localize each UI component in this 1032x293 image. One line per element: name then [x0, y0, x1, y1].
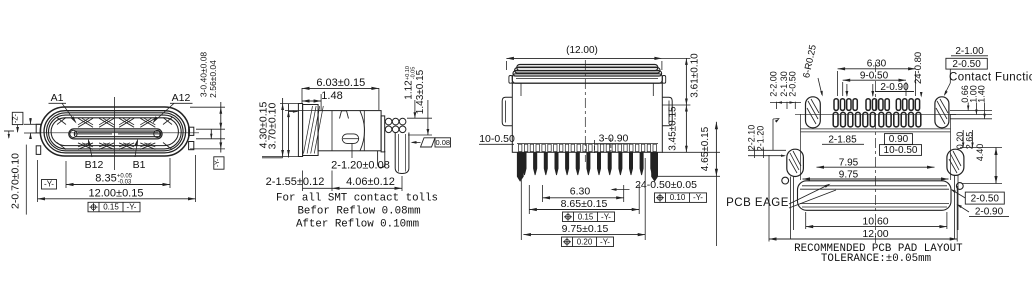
svg-text:3-0.90: 3-0.90	[599, 133, 629, 145]
view 3 pin comb band	[517, 143, 658, 145]
svg-text:8.35: 8.35	[95, 173, 116, 185]
view 3 left ext lines	[520, 158, 522, 240]
view 3 pins	[523, 152, 526, 175]
svg-text:-Y-: -Y-	[693, 193, 703, 202]
svg-text:24-0.80: 24-0.80	[913, 52, 924, 84]
svg-text:-Y-: -Y-	[600, 237, 610, 246]
svg-text:10-0.50: 10-0.50	[479, 133, 515, 145]
view 3 body	[512, 83, 662, 152]
flatness flag 0.08	[421, 138, 436, 147]
svg-text:0.15: 0.15	[103, 203, 119, 212]
view 4 small hole right	[956, 183, 963, 190]
svg-text:12.00±0.15: 12.00±0.15	[89, 187, 144, 199]
svg-text:3.45±0.15: 3.45±0.15	[667, 106, 678, 151]
svg-text:2-1.55±0.12: 2-1.55±0.12	[266, 176, 325, 188]
svg-text:24-0.50±0.05: 24-0.50±0.05	[635, 179, 697, 191]
view 2 latch detail	[340, 111, 349, 119]
view 3 dim 12 line	[506, 57, 662, 59]
leader 2-0.50 top	[949, 69, 951, 83]
view 1: USB-C receptacle front view - vertical centerline	[114, 97, 116, 170]
view 4 mid-right oval pad	[947, 149, 964, 175]
view 4 top-left big pad	[806, 97, 821, 128]
boxed 2-0.50 bottom	[965, 192, 1004, 204]
view 4 PCB edge shield bar	[798, 181, 952, 211]
view 2 main body	[318, 111, 381, 151]
view 4 mid-left oval pad	[787, 149, 804, 176]
svg-text:4.40: 4.40	[975, 144, 985, 162]
svg-text:Befor Reflow 0.08mm: Befor Reflow 0.08mm	[297, 205, 420, 217]
svg-text:2-1.20: 2-1.20	[756, 126, 766, 152]
svg-text:2-0.50: 2-0.50	[787, 71, 797, 97]
fcf 0.20 v3	[562, 237, 614, 247]
dim 4.06 line	[302, 171, 304, 192]
svg-text:4.06±0.12: 4.06±0.12	[346, 176, 395, 188]
view 4 bottom pad row	[833, 112, 838, 127]
view4 right mid hardware	[960, 147, 1002, 149]
view 3 right dims hardware	[662, 57, 690, 59]
small datum box right	[214, 157, 224, 169]
svg-text:1.12: 1.12	[404, 80, 415, 100]
dim 1.48 line	[302, 100, 321, 102]
svg-text:-Z-: -Z-	[13, 113, 20, 123]
svg-text:B12: B12	[85, 159, 104, 171]
dim 10.60 line	[806, 226, 947, 228]
view 3 right shell leg	[652, 152, 658, 181]
view 2 SMT pin circles	[385, 118, 392, 125]
view 4 phantom outline	[795, 113, 956, 115]
dim 12.00 v4 line	[769, 238, 957, 240]
view 2 small leg	[377, 151, 379, 164]
view 3 left shell leg	[517, 152, 523, 181]
svg-text:A1: A1	[51, 92, 64, 104]
svg-text:For all SMT contact tolls: For all SMT contact tolls	[276, 192, 438, 204]
svg-text:0.10: 0.10	[670, 193, 686, 202]
svg-text:0.08: 0.08	[435, 138, 450, 147]
svg-text:1.40: 1.40	[977, 85, 987, 103]
dim 6.03 ext lines	[301, 88, 303, 103]
dim 7.95 line	[817, 166, 935, 168]
boxed 0.90	[885, 134, 913, 145]
svg-text:2-2.00: 2-2.00	[769, 71, 779, 97]
svg-text:2.56±0.04: 2.56±0.04	[208, 60, 218, 98]
leader 24-0.50	[612, 189, 630, 191]
svg-text:10-0.50: 10-0.50	[884, 145, 918, 156]
view 2 flange with hatch	[303, 105, 319, 156]
datum -Z- flag top left	[12, 112, 23, 124]
view 1 tongue left end cap	[70, 130, 77, 137]
view 2 body inner vline	[331, 111, 333, 151]
view 1 tongue right end cap	[154, 130, 161, 137]
dim 2-0.90 arrows	[846, 84, 848, 96]
view 1 left mounting lug	[36, 124, 41, 133]
view1 right dim line	[220, 102, 222, 153]
fcf 0.10 v3	[655, 193, 707, 203]
view 2: side view front lip	[298, 104, 302, 157]
svg-text:4.65±0.15: 4.65±0.15	[700, 126, 711, 171]
view 1 shell third line	[47, 113, 184, 151]
svg-text:6.30: 6.30	[570, 186, 591, 198]
view 1 shell inner line	[44, 111, 186, 153]
dim 6.30 v3 line	[543, 197, 624, 199]
view 2 contact bump	[342, 134, 359, 144]
view 2 back curve	[360, 111, 365, 151]
dim 12.00 extension lines	[37, 160, 39, 202]
svg-text:Contact Function: Contact Function	[949, 72, 1032, 84]
view 1 right mounting lug	[189, 127, 194, 135]
view 4 small hole left	[782, 177, 789, 184]
svg-text:6.30: 6.30	[867, 59, 887, 70]
svg-text:TOLERANCE:±0.05mm: TOLERANCE:±0.05mm	[821, 253, 931, 265]
view 2 solder leg	[395, 133, 409, 174]
svg-text:0.90: 0.90	[889, 134, 909, 145]
dim 6.30 v4 line	[838, 68, 916, 70]
dim 9.75 v4 line	[803, 178, 949, 180]
svg-text:-Y-: -Y-	[214, 159, 221, 167]
datum -Y- box left	[42, 180, 57, 190]
view4 right top hardware	[950, 110, 992, 112]
svg-text:PCB EAGE: PCB EAGE	[726, 197, 789, 209]
view 1 cavity hatching	[78, 118, 93, 127]
boxed 10-0.50	[880, 145, 922, 156]
svg-text:After Reflow 0.10mm: After Reflow 0.10mm	[296, 218, 419, 230]
dim 9-0.50 line	[843, 79, 906, 81]
fcf 0.15 v3	[563, 212, 615, 222]
svg-text:-0.03: -0.03	[118, 180, 132, 186]
view 3 right tab	[662, 97, 672, 126]
svg-text:0.20: 0.20	[577, 237, 593, 246]
svg-text:-Y-: -Y-	[127, 203, 137, 212]
view 1 horizontal centerline	[30, 132, 199, 134]
view 3 right ext lines	[623, 185, 625, 202]
view 4 top pad row	[834, 99, 838, 111]
svg-text:3.61±0.10: 3.61±0.10	[689, 53, 700, 98]
view2 right dim hardware	[407, 117, 432, 119]
svg-text:2-0.50: 2-0.50	[952, 59, 981, 70]
leaders bottom right	[952, 190, 965, 198]
view 1 tongue contact bar	[74, 131, 160, 137]
view 1 cavity outer line	[49, 115, 182, 149]
view1 right ext lines	[190, 106, 225, 108]
view 1 cavity opening	[51, 118, 178, 146]
view 1 outer shell stadium	[40, 107, 189, 156]
svg-text:0.15: 0.15	[578, 212, 594, 221]
svg-text:10,60: 10,60	[862, 215, 888, 227]
svg-text:12.00: 12.00	[862, 228, 888, 240]
dim 9.75 line	[523, 234, 645, 236]
view2 left dim lines	[282, 98, 284, 158]
svg-text:1.43±0.15: 1.43±0.15	[415, 69, 426, 114]
svg-text:3-0.40±0.08: 3-0.40±0.08	[198, 52, 208, 98]
svg-text:-Y-: -Y-	[601, 212, 611, 221]
svg-text:-Y-: -Y-	[44, 180, 54, 189]
view1 left extension line	[25, 145, 27, 215]
view 2 back wall	[381, 116, 385, 152]
view 3 top shell dome	[517, 64, 658, 70]
svg-text:7.95: 7.95	[839, 157, 859, 168]
svg-text:6.03±0.15: 6.03±0.15	[316, 77, 365, 89]
svg-text:2-0.50: 2-0.50	[971, 194, 1000, 205]
svg-text:A12: A12	[172, 92, 191, 104]
svg-text:B1: B1	[133, 159, 146, 171]
view 3 body corner ticks	[520, 83, 522, 96]
boxed 2-0.50 top	[946, 58, 987, 69]
svg-text:3.70±0.10: 3.70±0.10	[267, 103, 279, 150]
dim 8.35 extension lines	[65, 161, 67, 188]
dim 12.00 line	[38, 198, 196, 200]
svg-text:(12.00): (12.00)	[566, 45, 598, 56]
view 3 centerline	[584, 60, 586, 162]
dim 6.03 line	[302, 87, 379, 89]
view 1 tongue outline	[69, 129, 162, 139]
svg-text:8.65±0.15: 8.65±0.15	[561, 198, 608, 210]
dim 8.35 line	[66, 184, 170, 186]
view 4 top-right big pad	[935, 97, 949, 128]
view 3 dashed line 3-0.90	[610, 138, 612, 153]
dim 2-1.20 leader	[351, 144, 353, 159]
view 3 left tab	[502, 97, 512, 126]
svg-text:2-0.90: 2-0.90	[975, 207, 1004, 218]
left lug tick lines	[24, 123, 41, 125]
PCB EAGE leader	[789, 185, 829, 205]
svg-text:1.48: 1.48	[321, 90, 342, 102]
svg-text:9.75±0.15: 9.75±0.15	[562, 223, 609, 235]
view 4 centerline	[875, 62, 877, 243]
position tolerance frame 0.15	[88, 202, 140, 212]
dim 8.65 line	[529, 209, 639, 211]
svg-text:2-0.70±0.10: 2-0.70±0.10	[10, 153, 22, 209]
svg-text:2.65: 2.65	[965, 132, 975, 150]
view4 left leaders	[776, 102, 778, 109]
svg-text:2-1.20±0.08: 2-1.20±0.08	[331, 159, 390, 171]
